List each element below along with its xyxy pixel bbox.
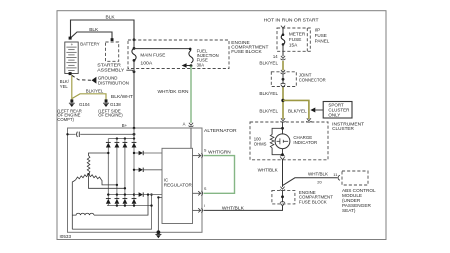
connector meter fuse top — [281, 26, 285, 29]
meter fuse 15A — [281, 28, 306, 51]
svg-text:BLK/YEL: BLK/YEL — [259, 91, 278, 96]
svg-text:BLK: BLK — [106, 14, 116, 20]
svg-text:METER: METER — [289, 31, 306, 36]
battery — [65, 42, 101, 74]
capacitor line — [68, 133, 135, 135]
wire WHT/GRN sense loop — [204, 149, 235, 193]
svg-text:IC: IC — [164, 177, 168, 182]
wire WHT/BLK branch to ABS — [283, 171, 339, 185]
svg-text:A: A — [183, 122, 186, 127]
node junction fuel fuse top — [189, 48, 192, 51]
svg-text:BLK/WHT: BLK/WHT — [111, 94, 133, 99]
node junction B+ bus — [133, 133, 136, 136]
fuel injection fuse 30A — [189, 48, 219, 67]
node junction starter/B+ — [133, 70, 136, 73]
svg-text:COMPT): COMPT) — [57, 117, 74, 122]
ground G104 — [57, 99, 90, 122]
connector engine compartment fuse block top — [280, 187, 285, 191]
connector ABS module — [338, 175, 340, 180]
svg-text:S: S — [204, 148, 207, 152]
wire cluster input to node — [282, 122, 284, 134]
node junction main fuse bottom — [133, 59, 136, 62]
stator center node — [87, 173, 90, 176]
ground G138 — [98, 99, 123, 117]
engine compartment fuse block (lower) — [272, 190, 333, 205]
phase column 4 — [133, 148, 135, 199]
svg-text:INDICATOR: INDICATOR — [293, 140, 317, 145]
connector C14 — [281, 56, 286, 60]
wire BLK/YEL joint connector down — [259, 87, 283, 119]
svg-text:BLK: BLK — [89, 27, 99, 33]
rectifier negative bus — [72, 193, 152, 229]
diode D5 bottom — [106, 199, 111, 206]
node junction main fuse top — [133, 47, 136, 50]
svg-text:SEAT): SEAT) — [342, 208, 356, 213]
wire main fuse top — [133, 40, 135, 49]
diode D7 bottom — [123, 199, 128, 206]
svg-text:FUSE: FUSE — [315, 33, 327, 38]
svg-text:30A: 30A — [197, 62, 205, 67]
svg-text:100A: 100A — [140, 61, 153, 66]
svg-text:B+: B+ — [122, 123, 128, 128]
wire BLK battery to starter — [71, 27, 112, 40]
svg-text:WHT/GRN: WHT/GRN — [208, 149, 231, 154]
phase column 2 — [116, 148, 118, 199]
rectifier positive bus — [108, 137, 135, 139]
svg-text:ALTERNATOR: ALTERNATOR — [204, 128, 237, 134]
pin 14 — [273, 54, 278, 59]
main fuse 100A — [132, 48, 165, 65]
svg-text:REGULATOR: REGULATOR — [164, 183, 192, 188]
terminal L connector — [193, 187, 207, 196]
svg-text:OF ENGINE): OF ENGINE) — [98, 113, 123, 118]
joint connector — [271, 70, 326, 88]
connector instrument cluster left input — [281, 118, 286, 122]
svg-text:CONNECTOR: CONNECTOR — [299, 77, 327, 82]
wire A terminal to regulator — [190, 128, 192, 148]
diode trio D11 — [134, 192, 162, 197]
svg-text:CLUSTER: CLUSTER — [332, 126, 354, 131]
node junction BLK at fuse block — [133, 38, 136, 41]
svg-text:YEL: YEL — [60, 84, 69, 89]
wire BLK/YEL to ground G138 — [72, 88, 106, 99]
wire dashed to ground distribution — [72, 75, 91, 80]
IC regulator U1 — [162, 148, 193, 223]
svg-text:WHT/BLK: WHT/BLK — [308, 171, 328, 176]
diode D8 bottom — [132, 199, 137, 206]
instrument cluster — [250, 121, 364, 159]
rotor field coil — [72, 193, 149, 215]
border frame — [57, 11, 386, 240]
svg-text:PANEL: PANEL — [315, 39, 330, 44]
battery negative terminal — [69, 72, 72, 75]
svg-text:I0533: I0533 — [60, 234, 72, 239]
terminal I connector — [193, 204, 205, 213]
wire BLK/WHT main fuse to alternator B+ — [111, 60, 134, 127]
wire B+ to rectifier bus — [133, 128, 135, 139]
svg-text:OHMS: OHMS — [254, 141, 267, 146]
svg-text:FUSE: FUSE — [289, 37, 302, 42]
capacitor — [77, 132, 80, 137]
alternator case — [68, 128, 238, 232]
wire WHT/DK GRN fuse to alternator A — [158, 66, 192, 123]
stator tap line — [89, 176, 127, 190]
wire meter fuse to connector — [282, 51, 284, 56]
svg-text:WHT/BLK: WHT/BLK — [222, 206, 244, 211]
engine compartment fuse block (top) — [128, 40, 269, 69]
svg-text:G104: G104 — [79, 102, 90, 107]
fuse tap arrow — [182, 63, 191, 68]
svg-text:I/P: I/P — [315, 28, 321, 33]
sport cluster note box — [323, 102, 352, 119]
alternator case ground — [155, 230, 161, 238]
svg-text:BLK/YEL: BLK/YEL — [288, 109, 307, 114]
connector instrument cluster right input — [306, 118, 311, 122]
ABS control module — [342, 171, 376, 213]
svg-text:20: 20 — [317, 180, 322, 185]
regulator ground line — [157, 196, 162, 232]
charge indicator — [275, 134, 317, 149]
wire BLK/YEL battery to ground G104 — [60, 75, 72, 100]
svg-text:WHT/BLK: WHT/BLK — [258, 167, 278, 172]
svg-text:S: S — [204, 187, 207, 191]
ground distribution arrow — [92, 76, 129, 86]
diode D6 bottom — [115, 199, 120, 206]
diode D3 top — [123, 139, 128, 148]
wire BLK battery to main fuse — [71, 14, 135, 39]
svg-text:ASSEMBLY: ASSEMBLY — [97, 68, 125, 74]
wire BLK/YEL fuse to joint connector — [259, 61, 283, 71]
node junction fuel fuse bottom — [190, 64, 193, 67]
svg-text:HOT IN RUN OR START: HOT IN RUN OR START — [264, 17, 319, 22]
stator coil arm 3 — [89, 174, 119, 186]
wire WHT/BLK fuse block to alternator I — [204, 206, 283, 211]
neutral bus — [107, 193, 135, 195]
node junction charge indicator top — [281, 127, 284, 130]
wire to fuel injection fuse — [134, 49, 191, 51]
diode D2 top — [115, 139, 120, 148]
svg-text:BLK/YEL: BLK/YEL — [259, 109, 278, 114]
svg-text:G138: G138 — [110, 102, 121, 107]
stator coil arm 1 — [87, 152, 109, 175]
svg-text:MAIN FUSE: MAIN FUSE — [140, 53, 165, 58]
svg-text:WHT/DK GRN: WHT/DK GRN — [158, 89, 189, 94]
wire BLK/YEL branch to sport cluster input — [283, 100, 309, 119]
resistor 100 ohms — [254, 128, 283, 154]
stator coil arm 2 — [72, 174, 88, 229]
svg-text:BLK/YEL: BLK/YEL — [86, 88, 104, 93]
header HOT IN RUN OR START — [264, 17, 319, 22]
node junction charge indicator bottom — [281, 148, 284, 156]
connector engine compartment fuse block bottom — [280, 202, 285, 206]
sport cluster note arrow — [310, 108, 323, 113]
meter fuse box (I/P fuse panel) — [277, 28, 330, 52]
starter assembly — [97, 42, 125, 74]
diode D4 top — [132, 139, 137, 148]
svg-text:DISTRIBUTION: DISTRIBUTION — [98, 80, 129, 85]
diagram id label I0533 — [60, 234, 72, 239]
diode D1 top — [106, 139, 111, 148]
node junction capacitor left — [66, 133, 68, 135]
node junction BLK/YEL split — [281, 99, 284, 102]
svg-text:BLK/YEL: BLK/YEL — [259, 61, 278, 66]
svg-text:11: 11 — [333, 172, 338, 177]
terminal B+ label — [122, 123, 136, 130]
svg-text:+: + — [71, 42, 74, 47]
terminal S connector — [193, 148, 207, 158]
svg-text:14: 14 — [273, 54, 278, 59]
wire starter to B+ lead — [126, 70, 134, 72]
phase column 3 — [124, 148, 126, 199]
wire WHT/BLK cluster down — [258, 160, 283, 187]
svg-text:FUSE BLOCK: FUSE BLOCK — [299, 199, 327, 204]
diode trio D10 — [133, 168, 162, 173]
svg-text:FUSE BLOCK: FUSE BLOCK — [231, 49, 262, 55]
node junction at starter top — [111, 38, 114, 41]
svg-text:15A: 15A — [289, 42, 298, 47]
svg-text:I: I — [204, 204, 205, 208]
connector instrument cluster output — [280, 155, 285, 159]
svg-text:ONLY: ONLY — [328, 113, 340, 118]
svg-text:BATTERY: BATTERY — [80, 42, 100, 48]
connector at alternator terminal A — [183, 122, 194, 127]
battery positive terminal — [69, 37, 72, 40]
phase column 1 — [107, 148, 109, 199]
diode trio D9 — [133, 151, 162, 156]
